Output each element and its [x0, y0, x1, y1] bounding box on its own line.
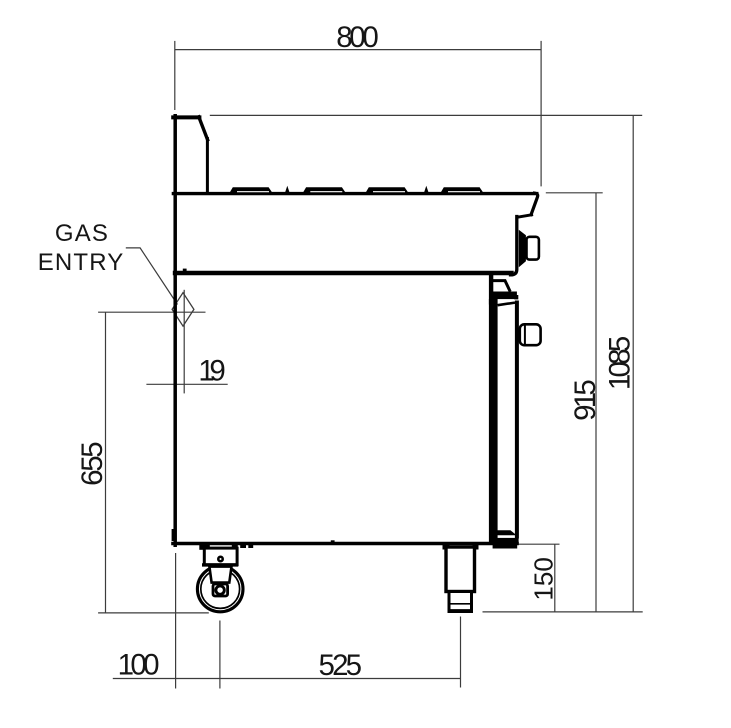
gas entry diamond symbol [172, 293, 194, 326]
dimension 19 lines [146, 290, 227, 394]
splashback top [173, 115, 199, 119]
splashback chamfer [199, 117, 208, 140]
burner grate 1 [229, 187, 273, 194]
cooktop front rounded corner [531, 193, 538, 215]
oven hinge arm [493, 281, 510, 292]
caster bracket [204, 548, 237, 565]
right leg tabs [443, 545, 450, 550]
svg-text:800: 800 [336, 21, 379, 54]
oven hinge upright [489, 275, 493, 305]
control band bottom line [175, 271, 512, 275]
igniter peak 1 [285, 186, 290, 193]
caster mounting tabs [199, 544, 210, 550]
dimension 655 lines [98, 312, 205, 613]
body bottom edge [173, 542, 517, 546]
oven door right edge [515, 301, 519, 539]
dimension texts [76, 21, 637, 682]
body left edge (back panel) [173, 116, 177, 545]
burner grate 2 [302, 187, 346, 194]
splashback right edge [206, 139, 209, 193]
svg-text:655: 655 [76, 441, 109, 486]
control band front edge [511, 217, 517, 275]
hinge block [493, 292, 517, 300]
right leg [446, 547, 475, 592]
bottom-left corner step [172, 529, 175, 541]
oven door bottom [497, 530, 516, 535]
oven door handle knob [520, 324, 541, 345]
oven door left bar [489, 299, 498, 545]
caster hub [216, 586, 224, 594]
oven door top edge [498, 303, 515, 306]
svg-text:1085: 1085 [604, 336, 637, 391]
right leg foot [449, 592, 472, 612]
burner grate 4 [440, 187, 484, 194]
caster fork [209, 567, 231, 583]
dimension 800 lines [175, 41, 541, 187]
bottom dimension lines 100 / 525 [113, 553, 461, 689]
svg-text:100: 100 [118, 648, 160, 681]
main body outline [173, 116, 538, 545]
upper control knob [527, 237, 539, 260]
upper control knob bezel [519, 230, 526, 267]
dimension 915 lines [546, 193, 603, 612]
label GAS ENTRY [38, 220, 124, 276]
svg-text:ENTRY: ENTRY [38, 249, 124, 276]
small bump on bottom edge [331, 540, 335, 544]
dimension 150 lines [518, 544, 560, 612]
igniter peak 2 [424, 186, 429, 193]
gas inlet bump on band bottom [183, 269, 187, 274]
cooktop front ledge [518, 215, 532, 217]
caster bolt [217, 556, 224, 563]
floor extension right [483, 611, 643, 613]
svg-text:19: 19 [198, 355, 226, 388]
cooktop surface [173, 192, 536, 195]
floor extension left [98, 612, 209, 614]
svg-text:525: 525 [319, 649, 363, 682]
svg-text:GAS: GAS [55, 220, 108, 247]
gas entry leader line [126, 248, 178, 305]
caster wheel [197, 566, 243, 612]
burner grate 3 [365, 187, 409, 194]
dimension 1085 lines [210, 115, 642, 612]
caster hub box [213, 584, 228, 596]
svg-text:915: 915 [569, 379, 602, 421]
svg-text:150: 150 [528, 557, 558, 601]
